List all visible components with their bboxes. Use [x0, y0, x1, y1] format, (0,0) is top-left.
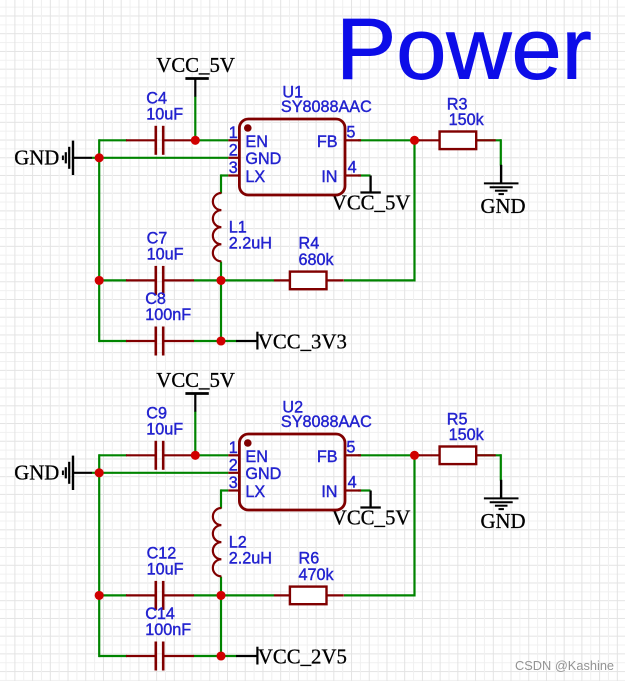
svg-text:EN: EN: [245, 133, 268, 151]
svg-text:10uF: 10uF: [147, 560, 184, 578]
svg-text:SY8088AAC: SY8088AAC: [281, 413, 372, 431]
svg-text:1: 1: [229, 439, 238, 457]
svg-text:5: 5: [346, 124, 355, 142]
svg-text:R6: R6: [299, 550, 320, 568]
svg-text:IN: IN: [321, 168, 337, 186]
svg-text:4: 4: [348, 159, 357, 177]
svg-text:SY8088AAC: SY8088AAC: [281, 98, 372, 116]
svg-text:LX: LX: [245, 483, 265, 501]
svg-text:2: 2: [229, 457, 238, 475]
svg-text:FB: FB: [317, 133, 338, 151]
svg-text:10uF: 10uF: [146, 105, 183, 123]
svg-text:100nF: 100nF: [145, 621, 191, 639]
svg-text:VCC_5V: VCC_5V: [332, 192, 411, 215]
svg-text:470k: 470k: [299, 566, 335, 584]
svg-text:GND: GND: [480, 195, 525, 218]
svg-text:1: 1: [229, 124, 238, 142]
svg-text:FB: FB: [317, 448, 338, 466]
svg-text:3: 3: [229, 159, 238, 177]
svg-text:GND: GND: [14, 146, 59, 169]
svg-text:VCC_3V3: VCC_3V3: [258, 330, 347, 353]
svg-text:Power: Power: [336, 1, 592, 97]
svg-text:4: 4: [348, 474, 357, 492]
svg-text:GND: GND: [245, 150, 281, 168]
svg-text:GND: GND: [480, 510, 525, 533]
svg-text:100nF: 100nF: [145, 306, 191, 324]
svg-text:10uF: 10uF: [147, 245, 184, 263]
svg-text:VCC_5V: VCC_5V: [156, 54, 235, 77]
svg-text:10uF: 10uF: [146, 420, 183, 438]
svg-text:R4: R4: [299, 235, 320, 253]
svg-text:2.2uH: 2.2uH: [229, 235, 272, 253]
svg-text:LX: LX: [245, 168, 265, 186]
svg-text:CSDN @Kashine: CSDN @Kashine: [515, 658, 614, 673]
svg-text:2.2uH: 2.2uH: [229, 550, 272, 568]
svg-text:680k: 680k: [299, 251, 335, 269]
svg-text:VCC_5V: VCC_5V: [332, 507, 411, 530]
svg-text:2: 2: [229, 142, 238, 160]
svg-text:VCC_2V5: VCC_2V5: [258, 645, 347, 668]
svg-text:5: 5: [346, 439, 355, 457]
svg-text:GND: GND: [245, 465, 281, 483]
svg-text:3: 3: [229, 474, 238, 492]
svg-text:EN: EN: [245, 448, 268, 466]
svg-text:150k: 150k: [449, 426, 485, 444]
svg-text:VCC_5V: VCC_5V: [156, 369, 235, 392]
svg-text:150k: 150k: [449, 111, 485, 129]
svg-text:IN: IN: [321, 483, 337, 501]
svg-text:GND: GND: [14, 461, 59, 484]
